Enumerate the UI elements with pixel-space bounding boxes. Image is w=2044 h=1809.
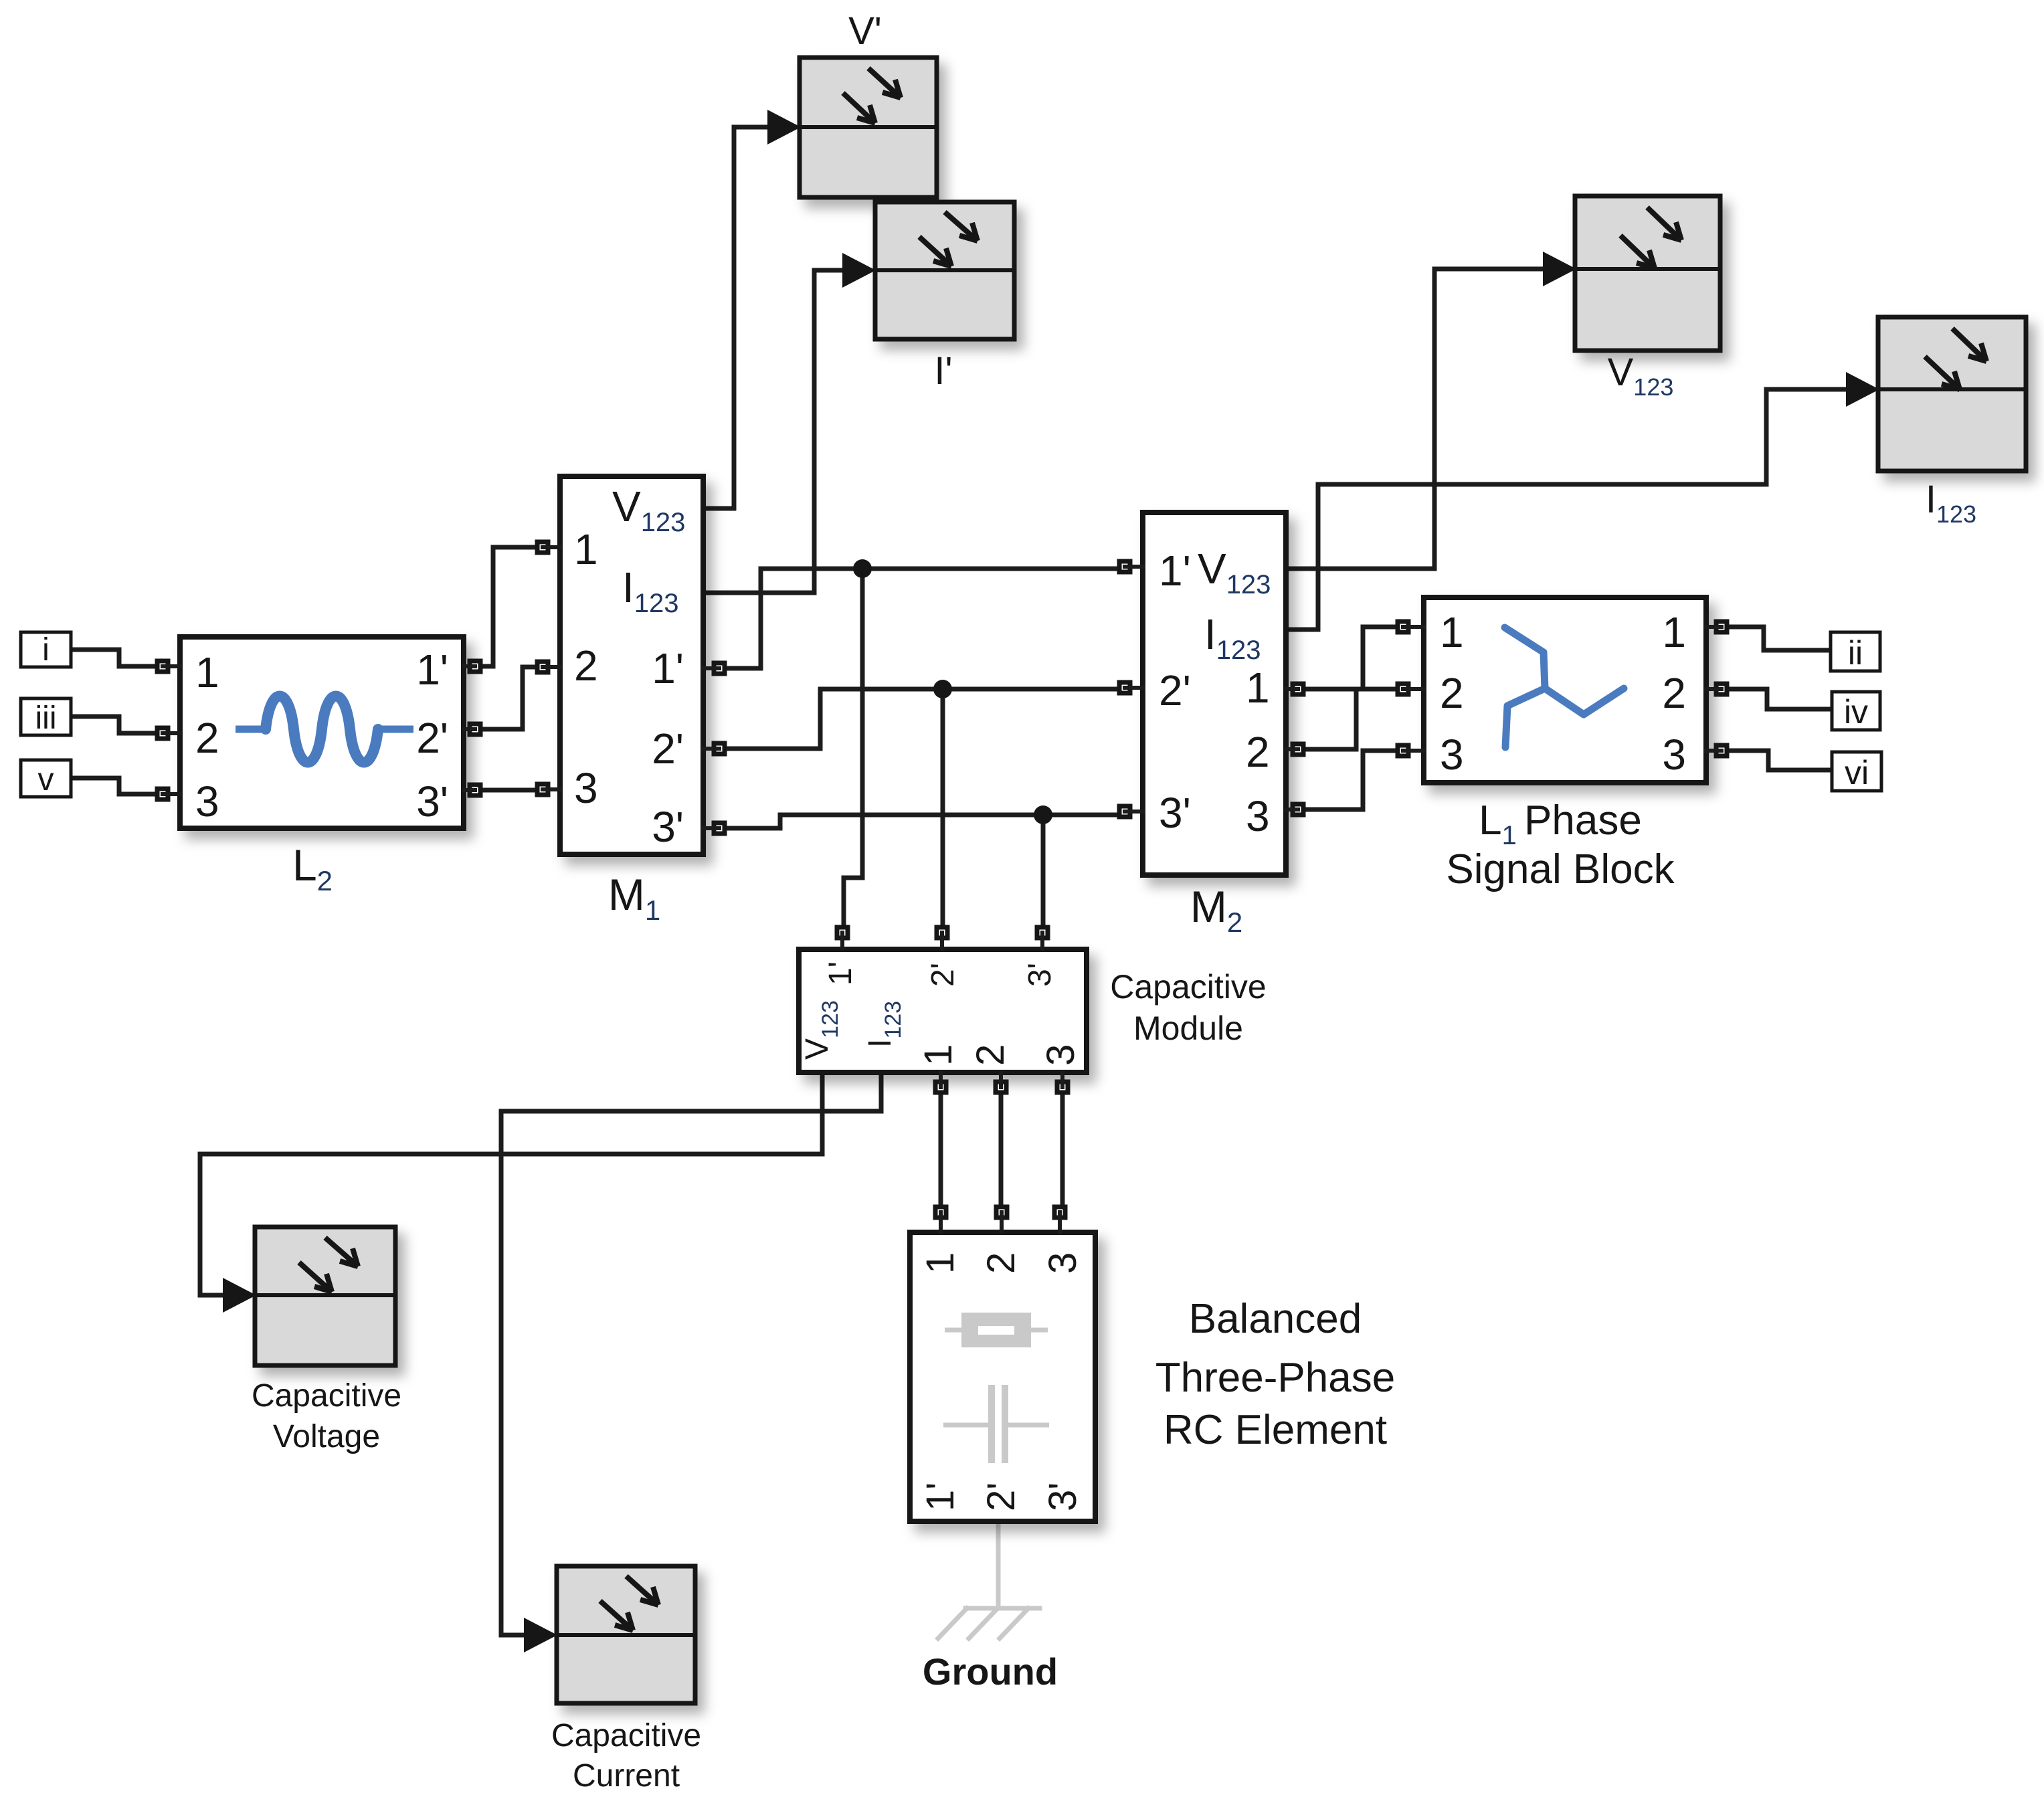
svg-text:I': I': [934, 349, 952, 393]
svg-text:2: 2: [1662, 669, 1686, 717]
svg-text:3: 3: [1662, 731, 1686, 779]
svg-text:Capacitive: Capacitive: [252, 1378, 401, 1414]
svg-text:1: 1: [574, 525, 598, 573]
svg-text:3': 3': [652, 803, 684, 851]
svg-text:2: 2: [1246, 728, 1270, 776]
svg-text:ii: ii: [1848, 634, 1863, 672]
svg-text:2: 2: [195, 714, 219, 762]
svg-text:Signal Block: Signal Block: [1446, 846, 1675, 892]
svg-text:3': 3': [416, 777, 448, 826]
svg-text:Capacitive: Capacitive: [1110, 968, 1266, 1006]
svg-text:1': 1': [919, 1483, 962, 1511]
svg-text:2: 2: [574, 642, 598, 690]
svg-text:Three-Phase: Three-Phase: [1155, 1355, 1395, 1401]
svg-text:3: 3: [1246, 792, 1270, 840]
svg-text:Balanced: Balanced: [1189, 1296, 1362, 1342]
svg-text:3': 3': [1041, 1483, 1085, 1511]
svg-text:1: 1: [1246, 664, 1270, 712]
svg-text:2': 2': [925, 963, 961, 987]
svg-text:iv: iv: [1844, 693, 1868, 731]
svg-text:1: 1: [1662, 608, 1686, 656]
svg-text:3: 3: [1440, 731, 1464, 779]
svg-text:2: 2: [1440, 669, 1464, 717]
svg-text:3: 3: [1039, 1044, 1083, 1066]
svg-text:Current: Current: [573, 1758, 680, 1794]
svg-text:iii: iii: [35, 700, 57, 736]
svg-text:Module: Module: [1133, 1010, 1243, 1047]
svg-text:1': 1': [416, 646, 448, 694]
svg-text:2: 2: [969, 1044, 1012, 1066]
svg-text:vi: vi: [1845, 754, 1869, 791]
svg-text:Capacitive: Capacitive: [551, 1718, 701, 1753]
svg-text:1: 1: [1440, 608, 1464, 656]
svg-text:1: 1: [195, 648, 219, 696]
svg-text:2: 2: [980, 1252, 1023, 1274]
svg-text:v: v: [38, 762, 54, 797]
svg-text:3: 3: [195, 777, 219, 826]
svg-text:RC Element: RC Element: [1164, 1407, 1387, 1453]
svg-text:2': 2': [416, 714, 448, 762]
svg-text:2': 2': [652, 725, 684, 773]
svg-text:3': 3': [1022, 963, 1058, 987]
svg-text:Voltage: Voltage: [273, 1419, 380, 1454]
svg-text:3: 3: [1041, 1252, 1085, 1274]
svg-text:3': 3': [1159, 789, 1191, 837]
svg-text:1: 1: [917, 1044, 960, 1066]
svg-text:1: 1: [919, 1252, 962, 1274]
svg-text:1': 1': [823, 961, 858, 985]
svg-text:2': 2': [1159, 666, 1191, 715]
svg-text:3: 3: [574, 764, 598, 812]
svg-text:Ground: Ground: [923, 1650, 1058, 1693]
svg-text:1': 1': [1159, 547, 1191, 595]
svg-text:i: i: [42, 632, 50, 668]
svg-text:2': 2': [980, 1483, 1023, 1511]
svg-text:1': 1': [652, 644, 684, 692]
svg-text:V': V': [848, 9, 882, 53]
